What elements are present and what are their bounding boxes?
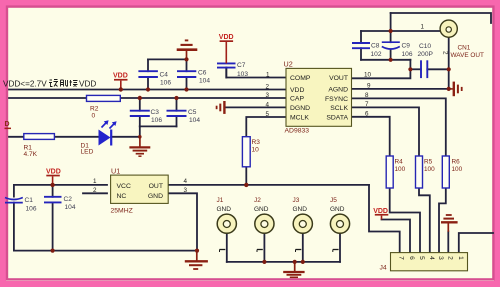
wire U2 pin9 AGND (352, 88, 449, 90)
svg-text:J2: J2 (254, 197, 261, 204)
svg-text:10: 10 (364, 72, 372, 79)
node C6 bottom on rail A (184, 87, 188, 91)
power VDD above C2/U1 (46, 169, 61, 185)
svg-text:1: 1 (93, 178, 97, 185)
svg-text:VDD<=2.7V: VDD<=2.7V (3, 80, 47, 89)
ground sideways at U2 DGND pin4 (217, 101, 225, 114)
node ground stem on C4C6 top rail (184, 57, 188, 61)
svg-text:FSYNC: FSYNC (325, 96, 348, 103)
svg-text:9: 9 (367, 83, 371, 90)
resistor R5 (416, 156, 436, 188)
svg-text:C8: C8 (371, 43, 380, 50)
wire R1 to LED anode (54, 136, 98, 138)
svg-text:6: 6 (408, 256, 415, 260)
wire LED cathode to ground (111, 136, 140, 138)
wire top rail C4-C6 (148, 58, 187, 60)
svg-text:2: 2 (442, 51, 449, 55)
power VDD near J4 (373, 208, 388, 220)
svg-text:R4: R4 (395, 159, 404, 166)
svg-text:J4: J4 (380, 265, 387, 272)
svg-text:AD9833: AD9833 (285, 128, 310, 135)
power VDD top-left (113, 73, 128, 90)
svg-text:1: 1 (421, 24, 425, 31)
capacitor C1 (5, 198, 23, 203)
svg-text:C4: C4 (160, 72, 169, 79)
svg-text:U2: U2 (284, 60, 293, 69)
node C5 top on rail B (174, 96, 178, 100)
connector J1 (217, 197, 237, 252)
resistor R1 (24, 134, 55, 158)
note text VDD<=2.7V with chinese (3, 80, 96, 89)
node C10 tap on VOUT riser (408, 67, 412, 71)
svg-text:MCLK: MCLK (290, 115, 309, 122)
wire C1 bottom stem (13, 203, 15, 251)
svg-text:7: 7 (398, 256, 405, 260)
capacitor C7 (217, 63, 236, 67)
ground sideways right of CN1 riser (AGND) (449, 82, 462, 97)
svg-text:3: 3 (184, 187, 188, 194)
svg-text:R3: R3 (252, 139, 261, 146)
wire U2 pin10 VOUT (352, 60, 411, 79)
svg-text:6: 6 (365, 111, 369, 118)
wire U1 pin3 GND down (168, 193, 197, 250)
node U1 GND on ground rail (195, 249, 199, 253)
wire C8 bottom stem (360, 48, 362, 60)
svg-text:SDATA: SDATA (326, 115, 348, 122)
wire C5 top stem (176, 98, 178, 111)
connector CN1 WAVE OUT (421, 20, 484, 59)
svg-text:C10: C10 (419, 43, 431, 50)
svg-text:4.7K: 4.7K (24, 151, 38, 158)
node VDD tap on rail A (119, 87, 123, 91)
ground top-middle inverted earth (177, 40, 198, 59)
svg-text:C1: C1 (25, 197, 34, 204)
wire C5 bottom stem (176, 116, 178, 126)
svg-text:J1: J1 (217, 197, 224, 204)
svg-text:J5: J5 (330, 197, 337, 204)
svg-text:GND: GND (254, 206, 269, 213)
wire C10 left (410, 68, 421, 70)
node middle ground stem on rail (293, 260, 297, 264)
wire rail C3-C5 bottoms (140, 125, 177, 127)
resistor R4 (386, 156, 405, 188)
power VDD clipped at left edge (5, 121, 12, 129)
svg-text:CAP: CAP (290, 96, 304, 103)
wire C2 top stem (52, 185, 54, 197)
svg-text:R5: R5 (424, 159, 433, 166)
IC U2 AD9833 (266, 60, 372, 135)
svg-text:106: 106 (402, 51, 413, 58)
svg-text:C6: C6 (198, 70, 207, 77)
wire CN1 pin1 rail (361, 30, 440, 32)
node J2 stem on ground rail (262, 260, 266, 264)
wire J5 stem (339, 233, 341, 262)
wire R5 bottom jog to J4 pin4 (419, 188, 430, 253)
wire C4 top stem (147, 59, 149, 71)
svg-text:R6: R6 (452, 159, 461, 166)
ground bottom-middle below J connectors (283, 262, 304, 277)
svg-text:R2: R2 (90, 106, 99, 113)
capacitor C6 (177, 71, 196, 77)
svg-text:1: 1 (457, 256, 464, 260)
wire rail B right of R2 to U2 pin3 (120, 97, 286, 99)
svg-text:C5: C5 (188, 109, 197, 116)
svg-text:WAVE OUT: WAVE OUT (451, 52, 484, 59)
wire R4 bottom jog to J4 pin5 (390, 188, 420, 253)
svg-text:7: 7 (365, 101, 369, 108)
wire J4 pin2 lower stem (447, 232, 449, 253)
capacitor C10 (421, 60, 427, 78)
wire U2 pin6 SDATA to R4 (352, 117, 390, 156)
svg-text:VDD: VDD (79, 80, 96, 89)
svg-text:LED: LED (81, 149, 94, 156)
svg-text:8: 8 (365, 92, 369, 99)
svg-text:3: 3 (437, 256, 444, 260)
wire C10 right to CN1 riser (427, 68, 448, 70)
svg-text:0: 0 (92, 113, 96, 120)
svg-text:VDD: VDD (219, 34, 234, 41)
wire top rail to right edge (391, 13, 491, 23)
wire C1 top stem (13, 185, 15, 197)
char 该 (49, 80, 58, 87)
wire U2 pin5 MCLK to R3 (246, 117, 286, 137)
wire J ground rail (227, 261, 340, 263)
wire R6 bottom jog to J4 pin3 (439, 188, 446, 253)
svg-text:VDD: VDD (46, 169, 61, 176)
svg-text:NC: NC (117, 193, 127, 200)
wire CN1 pin2 riser (448, 37, 450, 89)
power VDD above C7 (219, 34, 234, 63)
wire C7 bottom stem (225, 68, 227, 78)
svg-text:2: 2 (93, 187, 97, 194)
svg-text:3: 3 (266, 92, 270, 99)
svg-text:100: 100 (395, 166, 406, 173)
svg-text:2: 2 (446, 256, 453, 260)
svg-text:C7: C7 (237, 62, 246, 69)
connector J2 (254, 197, 274, 252)
capacitor C3 (130, 111, 150, 116)
svg-text:5: 5 (266, 111, 270, 118)
svg-text:U1: U1 (111, 167, 120, 176)
svg-text:DGND: DGND (290, 105, 310, 112)
ground below LED D1 (129, 137, 150, 156)
svg-text:103: 103 (237, 71, 248, 78)
svg-text:1: 1 (266, 72, 270, 79)
node LED wire to cap drain (138, 135, 142, 139)
svg-text:C2: C2 (64, 196, 73, 203)
wire VDD to J4 pin6 (382, 220, 411, 253)
svg-text:C9: C9 (402, 43, 411, 50)
svg-text:VOUT: VOUT (329, 75, 348, 82)
node C9 top riser junction (389, 29, 393, 33)
wire rail A (VDD rail to U2 pin2) (9, 89, 286, 91)
svg-text:VCC: VCC (117, 183, 131, 190)
wire C3 bottom stem (139, 116, 141, 126)
wire C9 bottom stem (390, 50, 392, 60)
LED D1 (81, 120, 117, 155)
wire right edge to J4 pin1 (459, 233, 493, 253)
svg-text:AGND: AGND (328, 87, 348, 94)
svg-text:VDD: VDD (113, 73, 128, 80)
svg-text:104: 104 (189, 117, 200, 124)
IC U1 25MHZ oscillator (93, 167, 188, 215)
svg-text:4: 4 (184, 178, 188, 185)
wire C4 bottom stem (147, 77, 149, 90)
wire U2 pin4 DGND (225, 106, 286, 108)
wire osc rail left section C1 to U1 pin1 (14, 184, 107, 186)
svg-text:106: 106 (26, 206, 37, 213)
capacitor C9 (382, 42, 400, 49)
svg-text:GND: GND (293, 206, 308, 213)
svg-text:J3: J3 (293, 197, 300, 204)
svg-text:OUT: OUT (149, 183, 163, 190)
svg-text:CN1: CN1 (458, 45, 471, 52)
svg-text:200P: 200P (418, 51, 434, 58)
svg-text:4: 4 (266, 101, 270, 108)
node C4 bottom on rail A (146, 87, 150, 91)
wire U2 pin1 to C7 (226, 68, 286, 78)
wire U1 pin2 stub (83, 192, 107, 194)
wire C8C9 bottom rail (361, 59, 410, 61)
svg-text:2: 2 (266, 84, 270, 91)
wire U2 pin8 FSYNC to R6 (352, 98, 446, 156)
svg-text:GND: GND (217, 206, 232, 213)
wire osc rail down to J4 pin7 (369, 185, 400, 253)
wire C3 top stem (139, 98, 141, 111)
wire R3 to osc rail (245, 167, 247, 185)
capacitor C4 (138, 71, 158, 77)
connector J5 (330, 197, 350, 252)
wire J1 stem (226, 233, 228, 262)
wire osc rail right section U1 pin4 to corner (168, 184, 369, 186)
capacitor C8 (352, 43, 370, 48)
svg-text:104: 104 (65, 204, 76, 211)
wire left VDD to R1 (9, 136, 24, 138)
wire U2 pin7 SCLK to R5 (352, 107, 420, 156)
resistor R2 (87, 95, 121, 119)
ground bottom-left below U1 rail (185, 251, 208, 269)
capacitor C5 (167, 111, 187, 116)
wire J2 stem (263, 233, 265, 262)
svg-text:25MHZ: 25MHZ (111, 208, 133, 215)
svg-text:5: 5 (418, 256, 425, 260)
svg-text:106: 106 (151, 117, 162, 124)
resistor R6 (442, 156, 462, 188)
node VDD/C2 tap on osc rail (50, 183, 54, 187)
pink frame (0, 0, 500, 6)
connector J4 (380, 253, 468, 272)
char 脚 (61, 80, 68, 87)
node J3 stem on ground rail (301, 260, 305, 264)
wire C6 bottom stem (186, 77, 188, 90)
capacitor C2 (44, 197, 62, 203)
wire bottom ground rail U1 (14, 250, 197, 252)
svg-text:COMP: COMP (290, 75, 311, 82)
wire J3 stem (302, 233, 304, 262)
wire rail B left of R2 (9, 97, 87, 99)
svg-text:10: 10 (252, 147, 260, 154)
svg-text:GND: GND (330, 206, 345, 213)
svg-text:D: D (5, 121, 10, 128)
svg-text:100: 100 (452, 166, 463, 173)
node C9 bottom rail junction (389, 58, 393, 62)
node C2 bottom on ground rail (51, 249, 55, 253)
wire drain C3C5 rail to LED wire (139, 126, 141, 136)
wire C6 top stem (186, 59, 188, 71)
ground inverted earth above J4 pin2 (441, 215, 458, 232)
connector J3 (293, 197, 313, 252)
svg-text:GND: GND (148, 193, 163, 200)
svg-text:102: 102 (371, 51, 382, 58)
node AGND junction (447, 87, 451, 91)
resistor R3 (242, 137, 260, 167)
svg-text:106: 106 (160, 80, 171, 87)
node C3 top on rail B (138, 96, 142, 100)
svg-text:4: 4 (428, 256, 435, 260)
svg-text:100: 100 (424, 166, 435, 173)
wire riser top rail to CN1 rail (390, 13, 392, 31)
wire C2 bottom stem (52, 202, 54, 250)
char 接 (70, 80, 78, 87)
svg-text:VDD: VDD (290, 87, 304, 94)
svg-text:104: 104 (199, 78, 210, 85)
svg-text:SCLK: SCLK (330, 105, 348, 112)
node R3 tap on osc rail (244, 183, 248, 187)
svg-text:C3: C3 (151, 109, 160, 116)
wire C8 top stem (360, 31, 362, 43)
wire C9 top stem (390, 31, 392, 42)
node C10 right on CN1 riser (447, 67, 451, 71)
